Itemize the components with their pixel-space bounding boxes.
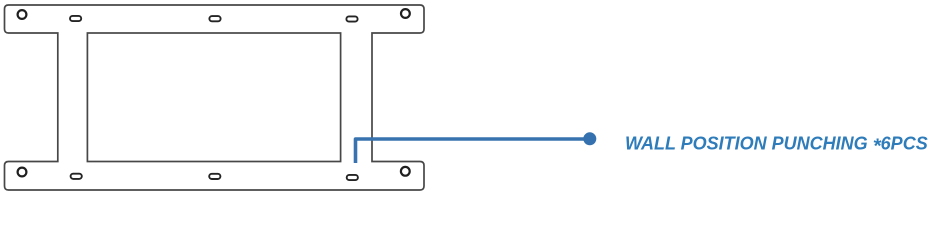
svg-text:WALL POSITION PUNCHING *6PCS: WALL POSITION PUNCHING *6PCS — [625, 134, 928, 158]
wall punch slot top 2 — [209, 16, 220, 21]
bracket center cutout — [87, 33, 340, 162]
bracket outer outline — [5, 5, 425, 190]
wall punch slot top 3 — [346, 16, 357, 21]
wall punch slot top 1 — [70, 16, 81, 21]
corner hole top-right — [401, 9, 410, 18]
corner hole bottom-right — [401, 167, 410, 176]
corner hole bottom-left — [18, 168, 27, 177]
callout dot — [583, 132, 596, 145]
wall punch slot bottom 3 — [347, 175, 358, 180]
corner hole top-left — [18, 10, 27, 19]
callout leader line — [356, 139, 585, 163]
wall punch slot bottom 1 — [71, 174, 82, 179]
wall punch slot bottom 2 — [209, 174, 220, 179]
